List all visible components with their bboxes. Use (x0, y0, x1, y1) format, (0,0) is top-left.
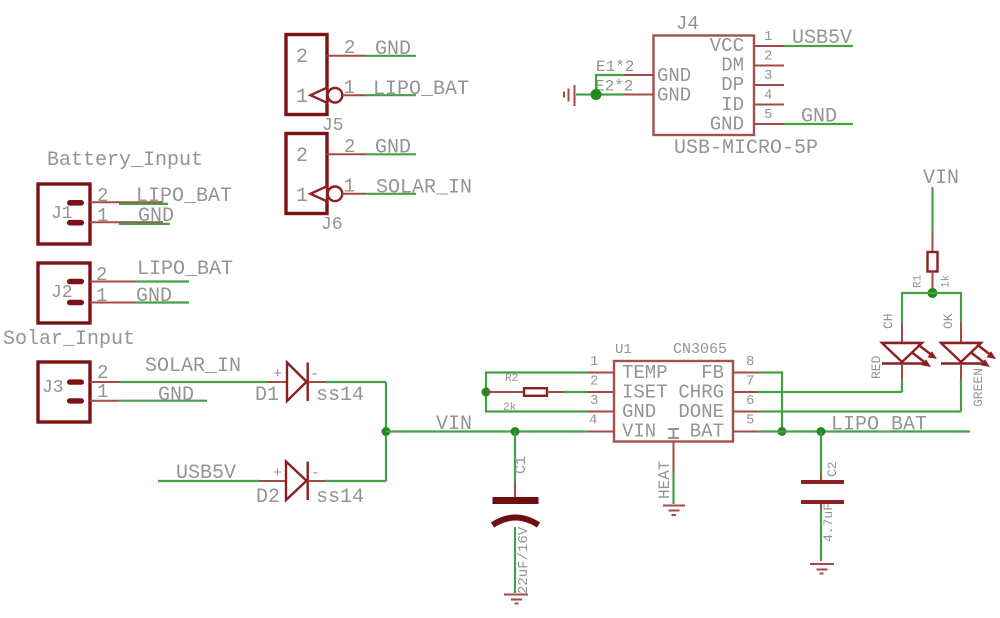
wire net GND at J2 pin 1 (136, 285, 189, 308)
svg-text:+: + (273, 465, 282, 482)
svg-text:LIPO_BAT: LIPO_BAT (373, 78, 469, 101)
wire LED branch top (902, 293, 961, 322)
wire net USB5V (784, 27, 853, 50)
U1 pin 3 GND (587, 393, 614, 412)
wire D1 cathode to VIN node (326, 381, 386, 383)
J5 pin 2 (327, 37, 366, 59)
diode D1 ss14 (255, 363, 364, 408)
label J6 (321, 215, 343, 235)
J2 pin 1 (90, 285, 136, 307)
wire red LED cathode to CHRG (901, 380, 903, 392)
svg-text:GREEN: GREEN (971, 368, 986, 407)
svg-text:1: 1 (296, 86, 308, 109)
ground at HEAT (663, 506, 685, 516)
junction below R1 (928, 288, 938, 298)
svg-text:VIN: VIN (622, 421, 656, 443)
ground at C1 (504, 595, 528, 604)
wire E1 to junction (596, 75, 624, 95)
wire R2 to ISET pin (564, 391, 587, 393)
svg-text:GND: GND (375, 38, 411, 61)
svg-text:C1: C1 (513, 456, 530, 474)
thermal pad symbol (668, 429, 679, 438)
LED red (869, 322, 937, 380)
svg-text:1: 1 (97, 381, 108, 403)
svg-text:HEAT: HEAT (656, 461, 674, 499)
svg-text:J6: J6 (321, 215, 343, 235)
svg-text:1k: 1k (941, 274, 953, 288)
svg-text:+: + (273, 366, 282, 383)
svg-text:U1: U1 (615, 342, 632, 358)
svg-text:GND: GND (801, 106, 837, 129)
wire net LIPO_BAT at J1 pin 2 (119, 185, 232, 208)
connector J4 USB-MICRO-5P (654, 13, 755, 136)
wire junction to ground (576, 93, 591, 95)
svg-text:6: 6 (746, 393, 754, 409)
wire net LIPO_BAT at J5 pin 1 (366, 78, 469, 101)
connector J6 (286, 134, 327, 214)
wire net SOLAR_IN at J6 pin 1 (366, 177, 472, 200)
J4 pin 2 (754, 49, 784, 66)
svg-text:2: 2 (296, 46, 308, 69)
svg-text:J3: J3 (42, 378, 64, 398)
wire E2 to junction (596, 93, 624, 95)
wire DONE net to green LED (758, 410, 961, 412)
resistor R1 1k (913, 233, 953, 293)
connector J2 (38, 263, 90, 323)
junction at J4 grounds (591, 89, 602, 100)
svg-text:8: 8 (746, 354, 754, 370)
svg-text:2: 2 (344, 37, 355, 59)
U1 pin 7 CHRG (733, 374, 758, 393)
svg-text:CN3065: CN3065 (673, 341, 727, 358)
wire CHRG net to red LED (758, 391, 902, 393)
capacitor C1 22uF/16V (493, 432, 539, 595)
svg-text:RED: RED (869, 355, 884, 379)
U1 pin 2 ISET (587, 374, 614, 393)
svg-text:ss14: ss14 (316, 486, 364, 509)
svg-text:1: 1 (344, 176, 355, 198)
svg-text:1: 1 (590, 354, 598, 370)
svg-text:GND: GND (657, 85, 691, 107)
svg-text:4.7uF: 4.7uF (821, 503, 836, 542)
svg-text:2: 2 (296, 145, 308, 168)
svg-text:Solar_Input: Solar_Input (3, 328, 135, 351)
J6 pin 2 (327, 136, 366, 158)
capacitor C2 4.7uF (801, 432, 844, 562)
svg-text:SOLAR_IN: SOLAR_IN (145, 355, 241, 378)
svg-text:4: 4 (589, 413, 597, 429)
junction at C1 (511, 427, 520, 436)
wire vertical diode join (385, 382, 387, 481)
svg-text:GND: GND (158, 384, 194, 407)
wire green LED cathode to DONE (960, 380, 962, 412)
svg-text:Battery_Input: Battery_Input (47, 149, 203, 172)
junction at ISET (482, 388, 491, 397)
svg-text:1: 1 (344, 77, 355, 99)
svg-text:USB-MICRO-5P: USB-MICRO-5P (674, 137, 818, 160)
diode D2 ss14 (256, 462, 364, 510)
svg-text:BAT: BAT (690, 421, 724, 443)
junction FB to BAT (778, 427, 787, 436)
J2 pin 2 (90, 264, 136, 286)
U1 pin 4 VIN (587, 413, 614, 432)
svg-text:D2: D2 (256, 486, 280, 509)
J4 pin E1 (596, 58, 654, 76)
wire FB net (758, 373, 782, 432)
label OK (941, 313, 956, 329)
svg-text:R2: R2 (505, 373, 518, 385)
wire net GND at J5 pin 2 (366, 38, 416, 61)
connector J5 (286, 35, 327, 115)
svg-text:GND: GND (375, 137, 411, 160)
resistor R2 2k (486, 373, 564, 414)
J6 pin 1 (311, 176, 367, 202)
svg-text:1: 1 (764, 29, 772, 45)
title Battery_Input (47, 149, 203, 172)
svg-text:OK: OK (941, 313, 956, 329)
connector J1 (38, 184, 90, 244)
U1 pin 8 FB (733, 354, 758, 373)
J4 pin 3 (754, 68, 784, 85)
wire net GND at J6 pin 2 (366, 137, 416, 160)
svg-text:GND: GND (710, 114, 744, 136)
svg-text:3: 3 (590, 393, 598, 409)
U1 pin 6 DONE (733, 393, 758, 412)
wire net USB5V to D2 (158, 462, 259, 485)
svg-text:2k: 2k (503, 402, 517, 414)
svg-text:2: 2 (344, 136, 355, 158)
wire net GND at J4 pin 5 (784, 106, 853, 129)
svg-text:J4: J4 (676, 13, 699, 35)
J3 pin 2 (90, 362, 119, 384)
J5 pin 1 (311, 77, 367, 103)
svg-text:-: - (310, 366, 319, 383)
svg-text:VIN: VIN (436, 413, 472, 436)
svg-text:5: 5 (746, 413, 754, 429)
svg-text:2: 2 (97, 185, 108, 207)
svg-text:E1*2: E1*2 (596, 58, 634, 76)
svg-text:C2: C2 (825, 461, 840, 477)
J4 pin 4 (754, 88, 784, 105)
svg-text:R1: R1 (913, 274, 925, 288)
svg-text:2: 2 (590, 374, 598, 390)
junction at C2 (817, 427, 826, 436)
J3 pin 1 (90, 381, 119, 403)
J4 pin E2 (595, 78, 654, 96)
wire net LIPO_BAT at J2 pin 2 (136, 258, 233, 282)
junction VIN node (382, 427, 391, 436)
J1 pin 2 (90, 185, 163, 207)
title Solar_Input (3, 328, 135, 351)
svg-text:USB5V: USB5V (176, 462, 236, 485)
svg-text:2: 2 (764, 49, 772, 65)
wire VIN to R1 (931, 187, 933, 233)
label CH (881, 313, 896, 329)
svg-text:GND: GND (136, 285, 172, 308)
svg-text:LIPO_BAT: LIPO_BAT (137, 258, 233, 281)
J1 pin 1 (90, 205, 163, 227)
LED green (941, 322, 996, 407)
svg-text:7: 7 (746, 374, 754, 390)
svg-text:1: 1 (97, 205, 108, 227)
wire D2 cathode to VIN node (325, 480, 386, 482)
node VIN top (923, 167, 959, 190)
svg-text:3: 3 (764, 68, 772, 84)
ground symbol at J4 (564, 85, 575, 106)
label USB-MICRO-5P (674, 137, 818, 160)
wire net LIPO_BAT from BAT (758, 414, 970, 437)
svg-text:-: - (311, 465, 320, 482)
J4 pin 5 (754, 107, 784, 124)
U1 HEAT pin (656, 442, 674, 505)
wire net GND at J3 pin 1 (119, 384, 207, 407)
svg-text:1: 1 (296, 185, 308, 208)
svg-text:4: 4 (764, 88, 772, 104)
svg-text:2: 2 (96, 264, 107, 286)
svg-text:1: 1 (96, 285, 107, 307)
ground at C2 (810, 564, 834, 574)
U1 pin 5 BAT (733, 413, 758, 432)
svg-text:SOLAR_IN: SOLAR_IN (376, 177, 472, 200)
svg-text:USB5V: USB5V (792, 27, 852, 50)
svg-text:GND: GND (138, 205, 174, 228)
J4 pin 1 (754, 29, 784, 46)
svg-text:VIN: VIN (923, 167, 959, 190)
ic U1 CN3065 (614, 341, 733, 443)
U1 pin 1 TEMP (587, 354, 614, 373)
wire TEMP net (486, 373, 587, 412)
svg-text:LIPO_BAT: LIPO_BAT (831, 414, 927, 437)
svg-text:ss14: ss14 (316, 384, 364, 407)
svg-text:D1: D1 (255, 384, 279, 407)
svg-text:DP: DP (721, 74, 744, 96)
label J5 (322, 116, 344, 136)
wire net VIN (386, 413, 587, 436)
wire net GND at J1 pin 1 (119, 205, 174, 228)
wire net SOLAR_IN (119, 355, 267, 382)
svg-text:CH: CH (881, 313, 896, 329)
svg-text:22uF/16V: 22uF/16V (516, 526, 532, 594)
svg-text:5: 5 (764, 107, 772, 123)
connector J3 (38, 362, 90, 422)
